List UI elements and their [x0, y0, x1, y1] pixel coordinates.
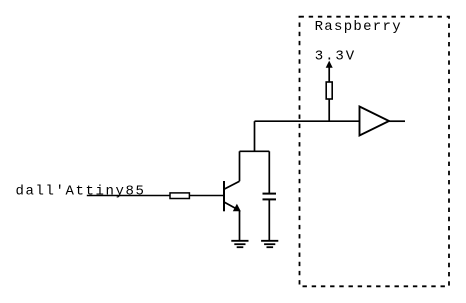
buffer U1	[360, 107, 390, 136]
wire collector top horizontal	[240, 150, 270, 152]
wire riser from collector net	[254, 121, 256, 151]
svg-text:Raspberry: Raspberry	[315, 19, 402, 35]
wire resistor R1 bottom leg	[328, 99, 330, 121]
resistor R1 pull-up	[326, 82, 332, 99]
wire main horizontal net	[255, 120, 360, 122]
3.3V power arrow	[326, 61, 333, 82]
ground at capacitor	[261, 241, 278, 247]
capacitor C1	[263, 151, 277, 241]
svg-text:3.3V: 3.3V	[315, 49, 356, 65]
wire base right segment	[189, 195, 223, 197]
transistor Q1	[224, 181, 241, 211]
ground at emitter	[231, 241, 248, 247]
Raspberry boundary box	[300, 17, 450, 287]
wire emitter vertical	[239, 211, 241, 241]
resistor R2 base	[170, 193, 189, 199]
svg-text:dall'Attiny85: dall'Attiny85	[16, 184, 146, 200]
wire base left segment	[87, 195, 170, 197]
wire collector vertical	[239, 151, 241, 181]
wire buffer output	[389, 120, 405, 122]
